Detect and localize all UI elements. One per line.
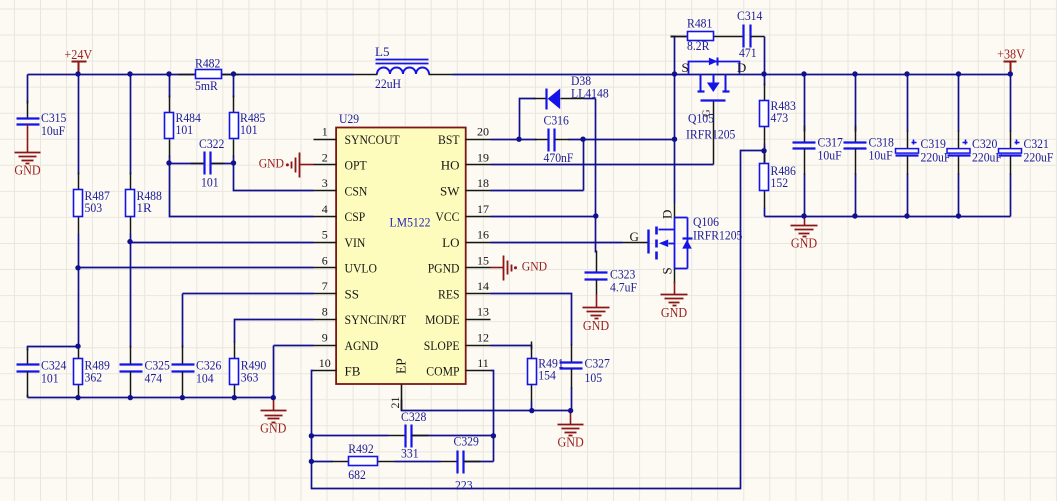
svg-text:11: 11 [477,356,489,370]
wire RES to C327 [491,294,572,346]
wire CSP branch [170,164,314,217]
wire AGND column [273,346,275,398]
svg-text:D: D [737,60,746,75]
capacitor C314 [731,8,765,60]
junction at 674.5,74 [672,71,677,76]
capacitor C329 [441,434,481,493]
transistor Q105 IRFR1205 [682,58,747,165]
wire HO to Q105 gate [491,164,714,166]
svg-text:10uF: 10uF [818,148,842,163]
svg-text:BST: BST [438,132,460,147]
svg-text:471: 471 [739,45,757,60]
pin 17 VCC [435,202,490,224]
capacitor C328 [389,409,429,461]
junction at 311.4,461.4 [309,459,314,464]
svg-text:LM5122: LM5122 [390,215,431,230]
svg-text:474: 474 [145,371,163,386]
junction at 583,139.2 [580,137,585,142]
wire R491 bottom [531,402,533,411]
wire LO to Q106 gate [491,242,623,244]
wire R484 column top [169,75,171,98]
svg-text:SLOPE: SLOPE [424,338,460,353]
wire output ground rail [765,216,1011,218]
svg-text:12: 12 [477,331,489,345]
wire R492 to C329 [395,461,441,463]
pin 14 RES [438,279,491,301]
junction at 958.5,216 [956,213,961,218]
svg-text:U29: U29 [339,111,359,126]
junction at 169,163 [166,160,171,165]
pin 12 SLOPE [424,331,491,353]
wire R487 column bottom / UVLO net [78,234,80,347]
junction at 1010.3,74 [1008,71,1013,76]
svg-text:R481: R481 [687,16,712,31]
capacitor C316 [535,113,574,166]
svg-text:220uF: 220uF [972,150,1002,165]
ground bottom-left rail [273,398,275,411]
capacitor C326 [172,346,222,398]
junction at 519,139.2 [516,137,521,142]
inductor L5 [354,44,453,91]
svg-text:152: 152 [771,175,789,190]
svg-text:COMP: COMP [426,364,459,379]
wire C327 bottom [571,388,573,411]
svg-text:1R: 1R [137,200,153,215]
wire FB loop [312,151,764,489]
svg-text:101: 101 [41,371,59,386]
junction at 595.8,216 [593,213,598,218]
svg-text:GND: GND [661,305,688,320]
svg-text:363: 363 [241,370,259,385]
wire output cap columns top [804,75,806,132]
resistor R484 [165,96,202,157]
wire C324 bottom [27,395,29,398]
junction at 804,216 [801,213,806,218]
svg-text:CSN: CSN [345,183,368,198]
power port GND at pin 15 PGND [491,256,548,281]
wire R483/R486 node [764,144,766,149]
svg-text:101: 101 [201,175,219,190]
svg-text:682: 682 [348,467,366,482]
pin 8 SYNCIN/RT [314,305,407,327]
svg-text:7: 7 [322,279,328,293]
junction at 907,216 [904,213,909,218]
svg-text:C314: C314 [737,8,763,23]
ground [661,295,688,321]
svg-text:2: 2 [322,150,328,164]
svg-text:15: 15 [477,253,489,267]
junction at 130,241.6 [127,239,132,244]
svg-text:+38V: +38V [997,47,1025,62]
svg-text:GND: GND [522,259,547,274]
wire bottom-left ground rail [28,397,274,399]
wire rail L5 right to +38V end [453,74,1011,76]
junction at 78,74 [75,71,80,76]
pin 2 OPT [314,150,367,172]
pin 10 FB [314,356,361,378]
svg-text:GND: GND [14,163,41,178]
wire C326 column [182,294,184,348]
svg-text:G: G [630,229,639,244]
wire rail R482 right to L5 [222,74,354,76]
power port +24V [64,47,92,75]
svg-text:18: 18 [477,176,489,190]
ground [583,308,610,334]
svg-text:PGND: PGND [428,261,460,276]
junction at 234.3,397.6 [232,395,237,400]
power port GND at pin 2 OPT [259,153,314,178]
svg-text:104: 104 [196,371,214,386]
wire output cap columns bottom [804,174,806,217]
svg-text:GND: GND [259,156,284,171]
wire pin 8 to R490 [235,320,314,343]
svg-text:13: 13 [477,305,489,319]
svg-text:4.7uF: 4.7uF [610,280,637,295]
svg-text:101: 101 [176,122,194,137]
svg-text:220uF: 220uF [921,150,951,165]
power port +38V [997,47,1025,75]
wire C322 right lead [212,163,234,165]
svg-text:3: 3 [322,176,328,190]
junction at 764,74 [761,71,766,76]
svg-text:22uH: 22uH [375,76,401,91]
svg-text:C316: C316 [544,113,570,128]
pin 1 SYNCOUT [314,125,400,147]
wire R492 row left [312,461,333,463]
svg-text:154: 154 [538,368,556,383]
wire COMP column [491,371,494,462]
svg-text:SYNCOUT: SYNCOUT [345,132,400,147]
pin 4 CSP [314,202,366,224]
resistor R487 [74,173,111,234]
resistor R481 [671,16,731,54]
wire UVLO to pin 6 [79,267,314,269]
pin 5 VIN [314,228,366,250]
junction at 130,74 [127,71,132,76]
ground [557,425,584,450]
junction at 855,216 [852,213,857,218]
junction at 130.3,397.6 [128,395,133,400]
svg-text:IRFR1205: IRFR1205 [686,127,735,142]
svg-text:220uF: 220uF [1024,150,1054,165]
wire SS to pin 7 [183,293,314,295]
wire BST to C316 [491,139,537,141]
svg-text:SW: SW [440,183,460,198]
wire R485 bottom to C322 node [233,156,235,164]
wire C325 column [130,243,132,348]
pin 11 COMP [426,356,490,378]
svg-text:5: 5 [322,228,328,242]
wire R488 column top [130,75,132,175]
svg-text:C328: C328 [401,409,426,424]
svg-text:LL4148: LL4148 [571,86,609,101]
svg-text:101: 101 [240,122,258,137]
wire +24V rail left segment [28,74,196,76]
pin 15 PGND [428,253,491,275]
capacitor C323 [585,251,638,308]
svg-text:GND: GND [557,435,584,450]
wire EP to ground rail [402,400,571,411]
wire C328 row left [312,435,389,437]
wire snubber loop right [764,37,766,75]
capacitor C325 [120,346,170,398]
junction at 804,74 [801,71,806,76]
wire snubber loop left [671,37,675,75]
svg-text:RES: RES [438,286,460,301]
junction at 311.4,435.8 [309,433,314,438]
wire SLOPE to R491 [491,346,532,350]
resistor R490 [230,342,267,398]
svg-text:SS: SS [345,286,359,301]
junction at 493.4,435.8 [491,433,496,438]
junction at 169,74 [166,71,171,76]
junction at 78,346.2 [75,344,80,349]
svg-text:GND: GND [791,236,818,251]
svg-text:HO: HO [441,158,460,173]
svg-text:GND: GND [583,318,610,333]
svg-text:4: 4 [322,202,328,216]
svg-text:VIN: VIN [345,235,366,250]
wire R487 column top [78,75,80,175]
svg-text:EP: EP [394,358,409,374]
junction at 674.5,139.2 [672,137,677,142]
svg-text:R482: R482 [195,56,220,71]
svg-text:10uF: 10uF [41,123,65,138]
svg-text:503: 503 [85,200,103,215]
pin 18 SW [440,176,491,198]
svg-text:C322: C322 [199,136,224,151]
svg-text:AGND: AGND [345,338,379,353]
junction at 855,74 [852,71,857,76]
junction at 764,150.8 [761,148,766,153]
resistor R492 [332,441,395,482]
wire R486 bottom [764,208,766,217]
junction at 233.5,74 [231,71,236,76]
svg-text:470nF: 470nF [544,150,574,165]
capacitor C320 [947,131,1002,175]
svg-text:10: 10 [319,356,331,370]
svg-text:CSP: CSP [345,209,366,224]
svg-text:L5: L5 [375,44,389,59]
svg-text:C329: C329 [454,434,479,449]
wire R489 bottom [78,398,80,400]
svg-text:FB: FB [345,364,361,379]
svg-text:S: S [682,60,689,75]
svg-text:LO: LO [442,235,459,250]
svg-text:IRFR1205: IRFR1205 [693,228,742,243]
svg-text:GND: GND [260,421,287,436]
wire CSN branch [234,164,314,191]
pin 19 HO [441,150,491,172]
pin 9 AGND [314,331,379,353]
pin 16 LO [442,228,490,250]
resistor R488 [126,173,162,234]
svg-text:R492: R492 [348,441,373,456]
svg-text:10uF: 10uF [869,148,893,163]
svg-text:105: 105 [585,370,603,385]
junction at 78,397.6 [75,395,80,400]
ground [260,411,287,436]
junction at 78,267.8 [75,265,80,270]
capacitor C315 [17,101,67,153]
svg-text:UVLO: UVLO [345,261,378,276]
wire VIN to pin 5 [131,242,314,244]
svg-text:9: 9 [322,331,328,345]
svg-text:16: 16 [477,228,489,242]
capacitor C324 [17,349,67,398]
junction at 233.5,163 [231,160,236,165]
svg-text:8.2R: 8.2R [687,38,710,53]
ground below EP rail [570,411,572,425]
junction at 907,74 [904,71,909,76]
svg-text:OPT: OPT [345,158,367,173]
svg-text:21: 21 [388,397,402,409]
op-amp U29 LM5122 body [336,111,466,384]
wire AGND to pin 9 [274,345,314,347]
pin 21 EP [388,358,409,410]
capacitor C319 [896,131,951,175]
junction at 182.4,397.6 [180,395,185,400]
resistor R483 [760,84,796,144]
resistor R491 [528,342,564,402]
wire C316 right to switch node [569,139,675,141]
svg-text:223: 223 [455,478,473,493]
wire C328 row right [413,435,494,437]
svg-text:Q105: Q105 [688,111,714,126]
wire C324 branch [28,347,79,351]
svg-text:473: 473 [771,110,789,125]
capacitor C321 [999,131,1054,175]
wire C322 left lead [170,163,206,165]
svg-text:S: S [660,267,675,274]
wire R484 bottom to C322 node [169,156,171,164]
svg-text:6: 6 [322,253,328,267]
svg-text:14: 14 [477,279,489,293]
transistor Q106 IRFR1205 [623,204,743,295]
resistor R486 [760,147,797,208]
wire D38 anode side [585,98,596,100]
wire switch node column [674,75,676,204]
wire BST up to D38 [520,99,536,140]
capacitor C322 [191,152,225,175]
wire C329 right lead [465,461,494,463]
svg-text:1: 1 [322,125,328,139]
svg-text:19: 19 [477,150,489,164]
svg-text:C327: C327 [585,356,611,371]
wire R485 column top [233,75,235,98]
junction at 273.3,397.6 [271,395,276,400]
resistor R482 [179,56,239,94]
svg-text:SYNCIN/RT: SYNCIN/RT [345,312,407,327]
capacitor C327 [560,345,611,389]
wire D38/VCC/C323 column [595,99,597,253]
svg-text:8: 8 [322,305,328,319]
junction at 531.8,410.6 [529,408,534,413]
resistor R485 [230,96,266,157]
svg-text:20: 20 [477,125,489,139]
ground [791,226,818,251]
pin 13 MODE [425,305,490,327]
svg-text:5mR: 5mR [195,78,218,93]
svg-text:331: 331 [401,446,419,461]
wire VCC to D38 column [491,216,596,218]
pin 20 BST [438,125,491,147]
ground below output rail [804,217,806,226]
junction at 570.6,410.6 [568,408,573,413]
svg-text:VCC: VCC [435,209,459,224]
pin 3 CSN [314,176,368,198]
pin 6 UVLO [314,253,378,275]
wire R488 bottom to VIN [130,234,132,243]
svg-text:D: D [660,210,675,219]
svg-text:+24V: +24V [64,47,92,62]
ground [14,153,41,178]
capacitor C317 [793,126,844,175]
resistor R489 [74,346,110,398]
wire SW to pin 18 [491,190,584,192]
pin 7 SS [314,279,359,301]
wire C315 column [27,75,29,104]
svg-text:17: 17 [477,202,489,216]
svg-text:MODE: MODE [425,312,459,327]
junction at 958.5,74 [956,71,961,76]
wire SW column [583,140,585,191]
wire R483 top [764,75,766,86]
capacitor C318 [844,126,894,175]
svg-text:362: 362 [85,370,103,385]
diode D38 [534,73,609,110]
